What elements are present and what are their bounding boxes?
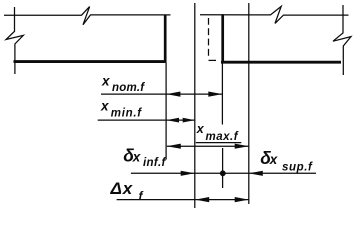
- left part bottom edge (thick): [14, 60, 167, 63]
- delta x_f dimension line: [117, 199, 249, 201]
- extension line of left part face: [165, 63, 167, 160]
- svg-text:x: x: [269, 152, 278, 167]
- svg-text:x: x: [101, 73, 110, 88]
- right part left face (thick): [221, 14, 224, 63]
- svg-text:sup.f: sup.f: [282, 161, 313, 173]
- arrowhead x_max right: [235, 144, 249, 149]
- right part bottom edge (thick): [221, 61, 341, 64]
- svg-text:Δx: Δx: [110, 179, 134, 198]
- nominal face dashed corner stub: [209, 59, 217, 61]
- svg-text:x: x: [100, 98, 109, 113]
- left part left boundary with break: [6, 7, 23, 74]
- right part right boundary with break: [333, 5, 351, 75]
- arrowhead x_min left: [166, 118, 179, 123]
- svg-text:max.f: max.f: [206, 131, 239, 143]
- x_max.f dimension line: [167, 145, 249, 147]
- label x_max.f: [196, 122, 239, 143]
- left part right face (thick): [164, 15, 167, 63]
- arrowhead x_nom right: [208, 92, 222, 97]
- label dx_sup.f: [260, 148, 313, 174]
- arrowhead dx_sup (points left at x_max line): [249, 171, 263, 176]
- svg-text:f: f: [139, 189, 144, 203]
- extension line of right part face (lower): [222, 148, 224, 188]
- arrowhead x_max left: [167, 144, 181, 149]
- nominal face dashed line: [208, 18, 210, 56]
- svg-text:x: x: [132, 149, 141, 164]
- x_max.f label underline: [196, 142, 242, 144]
- svg-text:x: x: [196, 122, 205, 136]
- svg-text:nom.f: nom.f: [112, 82, 145, 94]
- label delta x_f: [110, 179, 144, 203]
- junction dot on actual face line: [220, 170, 226, 176]
- left part top edge with break: [4, 7, 171, 25]
- label x_min.f: [100, 98, 142, 119]
- x_nom.f dimension line: [101, 93, 222, 95]
- arrowhead x_nom left: [166, 92, 180, 97]
- arrowhead delta x right: [235, 197, 249, 202]
- svg-text:min.f: min.f: [111, 108, 142, 120]
- label x_nom.f: [101, 73, 145, 94]
- extension line x_max: [248, 3, 250, 204]
- x_min.f dimension line: [98, 119, 195, 121]
- svg-text:inf.f: inf.f: [143, 157, 166, 169]
- extension line x_min: [194, 3, 196, 208]
- arrowhead x_min right: [183, 118, 195, 123]
- label dx_inf.f: [123, 145, 166, 168]
- arrowhead dx_inf (points right at x_min line): [181, 171, 195, 176]
- deviation dimension line: [131, 172, 316, 174]
- arrowhead delta x left: [195, 197, 209, 202]
- right part top edge with break: [200, 6, 349, 23]
- extension line of right part face (upper): [221, 63, 223, 124]
